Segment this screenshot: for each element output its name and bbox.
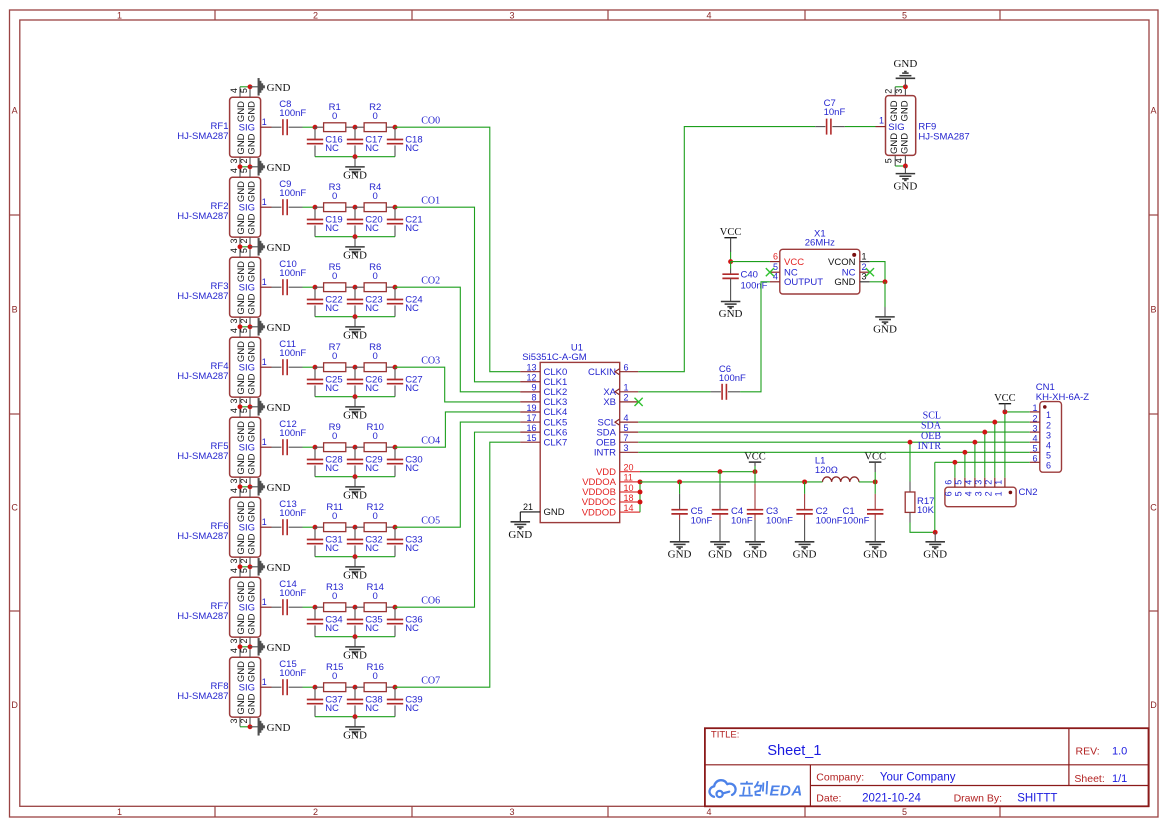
svg-text:2021-10-24: 2021-10-24 [862, 793, 921, 805]
svg-text:3: 3 [509, 10, 514, 20]
wire shunt rail RF8 [315, 716, 395, 718]
svg-text:C: C [1150, 503, 1157, 513]
svg-text:6: 6 [944, 480, 954, 485]
svg-text:GND: GND [247, 341, 258, 362]
svg-text:120Ω: 120Ω [815, 465, 838, 476]
svg-text:GND: GND [343, 570, 367, 582]
svg-text:9: 9 [531, 383, 536, 393]
wire RF6 pin1 to C13 [272, 526, 282, 528]
U1 pin 3 INTR [620, 451, 639, 453]
capacitor C18 NC [394, 127, 396, 139]
svg-text:GND: GND [267, 162, 291, 174]
svg-text:HJ-SMA287: HJ-SMA287 [177, 211, 228, 222]
capacitor C28 NC [314, 447, 316, 459]
svg-text:VCC: VCC [864, 452, 886, 463]
wire net SCL [638, 421, 1030, 423]
no-connect X1 pin 2 [866, 268, 874, 276]
resistor R14 0 [355, 606, 364, 608]
svg-text:HJ-SMA287: HJ-SMA287 [177, 451, 228, 462]
svg-text:10: 10 [624, 483, 634, 493]
capacitor C35 NC [354, 607, 356, 619]
svg-text:HJ-SMA287: HJ-SMA287 [918, 131, 969, 142]
svg-text:HJ-SMA287: HJ-SMA287 [177, 371, 228, 382]
junction CN2 drop 1 [1002, 409, 1007, 414]
svg-text:NC: NC [365, 143, 379, 154]
U1 pin 20 VDD [620, 471, 641, 473]
resistor R6 0 [355, 286, 364, 288]
svg-text:5: 5 [239, 88, 249, 93]
junction node CO6 a [313, 605, 318, 610]
svg-text:2: 2 [983, 480, 993, 485]
junction node CO5 a [313, 525, 318, 530]
ground below RF4 network [354, 397, 356, 407]
connector RF5 HJ-SMA287 [230, 417, 261, 477]
svg-text:D: D [1150, 700, 1157, 710]
connector RF3 HJ-SMA287 [230, 257, 261, 317]
IC U1 Si5351C-A-GM body [540, 362, 620, 522]
svg-text:INTR: INTR [594, 448, 616, 459]
svg-text:0: 0 [332, 511, 337, 522]
svg-text:VCC: VCC [784, 257, 804, 268]
U1 pin 4 SCL [620, 421, 639, 423]
svg-text:GND: GND [236, 213, 247, 234]
capacitor C10 100nF [282, 279, 284, 295]
frame row ticks [10, 214, 20, 216]
svg-text:GND: GND [236, 341, 247, 362]
resistor R8 0 [355, 366, 364, 368]
capacitor C24 NC [394, 287, 396, 299]
junction node CO3 c [393, 365, 398, 370]
U1 pin 19 CLK4 [520, 411, 540, 413]
resistor R15 0 [315, 686, 324, 688]
wire shunt rail RF5 [315, 476, 395, 478]
U1 pin 15 CLK7 [520, 441, 540, 443]
wire CN1 CN2 pin6 ground net [935, 461, 1030, 463]
junction rail RF6 [353, 554, 358, 559]
svg-text:NC: NC [325, 623, 339, 634]
svg-text:10nF: 10nF [691, 516, 713, 527]
wire C9 to node [303, 206, 316, 208]
CN2 pin 4 [974, 478, 976, 488]
svg-text:HJ-SMA287: HJ-SMA287 [177, 291, 228, 302]
svg-text:100nF: 100nF [279, 268, 306, 279]
ground below RF8 network [354, 717, 356, 727]
svg-text:2: 2 [239, 558, 249, 563]
connector CN1 KH-XH-6A-Z body [1040, 402, 1062, 473]
wire C10 to node [303, 286, 316, 288]
X1 pin 1 VCON [860, 261, 870, 263]
wire net OEB [638, 441, 1030, 443]
svg-text:GND: GND [236, 181, 247, 202]
wire OEB to R17 [909, 442, 911, 481]
U1 pin 1 XA [620, 391, 639, 393]
svg-text:GND: GND [236, 261, 247, 282]
svg-text:GND: GND [247, 533, 258, 554]
svg-text:0: 0 [332, 271, 337, 282]
svg-text:6: 6 [624, 363, 629, 373]
svg-text:GND: GND [247, 293, 258, 314]
junction OEB R17 [908, 440, 913, 445]
svg-text:GND: GND [267, 242, 291, 254]
svg-text:3: 3 [229, 638, 239, 643]
svg-text:NC: NC [325, 143, 339, 154]
svg-text:5: 5 [1046, 451, 1051, 461]
svg-text:1.0: 1.0 [1112, 745, 1127, 757]
svg-text:100nF: 100nF [279, 348, 306, 359]
svg-text:HJ-SMA287: HJ-SMA287 [177, 531, 228, 542]
CN1 pin 5 [1030, 451, 1040, 453]
svg-text:2: 2 [1032, 413, 1037, 423]
svg-text:CO6: CO6 [421, 595, 440, 606]
svg-text:2: 2 [239, 638, 249, 643]
svg-text:3: 3 [229, 318, 239, 323]
svg-text:GND: GND [267, 722, 291, 734]
connector RF1 HJ-SMA287 [230, 97, 261, 157]
svg-text:GND: GND [247, 421, 258, 442]
junction ground node right [933, 530, 938, 535]
wire drop to CN2 pin 6 [954, 462, 956, 477]
junction node CO6 b [353, 605, 358, 610]
svg-text:Si5351C-A-GM: Si5351C-A-GM [522, 352, 586, 363]
svg-text:B: B [12, 305, 18, 315]
svg-text:4: 4 [894, 158, 904, 163]
svg-text:0: 0 [332, 351, 337, 362]
svg-text:GND: GND [247, 213, 258, 234]
svg-text:4: 4 [706, 807, 711, 817]
title block row line 1 [705, 764, 1149, 766]
capacitor C38 NC [354, 687, 356, 699]
ground below C3 [745, 541, 765, 543]
svg-text:5: 5 [902, 10, 907, 20]
RF9 top pins 2 3 [894, 87, 896, 96]
CN1 pin 1 [1030, 411, 1040, 413]
svg-text:GND: GND [247, 661, 258, 682]
ground below RF9 [904, 166, 906, 173]
wire RF7 pin1 to C14 [272, 606, 282, 608]
CN2 pin 3 [984, 478, 986, 488]
U1 pin 10 VDDOB [620, 491, 641, 493]
junction VDDOB [638, 490, 643, 495]
svg-text:GND: GND [247, 501, 258, 522]
oscillator X1 26MHz body [780, 249, 860, 294]
svg-text:SIG: SIG [239, 363, 255, 374]
svg-text:NC: NC [325, 703, 339, 714]
wire shunt rail RF3 [315, 316, 395, 318]
capacitor C31 NC [314, 527, 316, 539]
wire L1 to VCC node [859, 481, 875, 483]
svg-text:GND: GND [236, 661, 247, 682]
no-connect XB [635, 398, 643, 406]
svg-text:CO7: CO7 [421, 675, 440, 686]
svg-text:NC: NC [405, 223, 419, 234]
ground above RF9 [904, 78, 906, 86]
CN1 pin 3 [1030, 431, 1040, 433]
CN1 pin 6 [1030, 461, 1040, 463]
svg-text:OUTPUT: OUTPUT [784, 277, 823, 288]
wire net CO3 [395, 367, 520, 402]
svg-text:0: 0 [373, 591, 378, 602]
svg-text:NC: NC [365, 623, 379, 634]
svg-text:21: 21 [523, 502, 533, 512]
wire net CO2 [395, 287, 520, 392]
svg-text:SIG: SIG [888, 122, 904, 133]
svg-text:GND: GND [267, 322, 291, 334]
junction node CO5 b [353, 525, 358, 530]
svg-text:GND: GND [236, 613, 247, 634]
wire C13 to node [303, 526, 316, 528]
svg-text:NC: NC [405, 303, 419, 314]
capacitor C1 100nF [874, 482, 876, 494]
ground below RF2 network [354, 237, 356, 247]
junction node CO3 a [313, 365, 318, 370]
ground flag at RF connector row 4 [240, 326, 250, 328]
svg-text:SIG: SIG [239, 203, 255, 214]
junction rail RF2 [353, 234, 358, 239]
svg-text:NC: NC [365, 383, 379, 394]
svg-text:SIG: SIG [239, 123, 255, 134]
wire C11 to node [303, 366, 316, 368]
svg-text:Sheet:: Sheet: [1074, 773, 1104, 785]
svg-text:5: 5 [954, 480, 964, 485]
CN2 pin 2 [994, 478, 996, 488]
wire net CO6 [395, 432, 520, 607]
ground below C40 [721, 301, 741, 303]
svg-text:INTR: INTR [918, 441, 942, 452]
ground below X1 [875, 316, 895, 318]
resistor R4 0 [355, 206, 364, 208]
capacitor C39 NC [394, 687, 396, 699]
resistor R5 0 [315, 286, 324, 288]
CN1 pin 4 [1030, 441, 1040, 443]
ground below RF5 network [354, 477, 356, 487]
svg-text:GND: GND [267, 642, 291, 654]
svg-text:4: 4 [229, 168, 239, 173]
X1 pin 3 GND [860, 281, 870, 283]
svg-text:GND: GND [247, 373, 258, 394]
svg-text:1: 1 [262, 357, 267, 367]
svg-text:GND: GND [708, 548, 732, 560]
svg-text:6: 6 [1046, 461, 1051, 471]
capacitor C5 10nF [679, 482, 681, 494]
wire XA net with C6 [638, 391, 710, 393]
RF9 pin 1 stub [876, 126, 886, 128]
svg-text:GND: GND [236, 101, 247, 122]
CN1 pin 2 [1030, 421, 1040, 423]
svg-text:5: 5 [1032, 444, 1037, 454]
ground flag at RF connector row 9 [240, 726, 250, 728]
junction VDDO C2 [802, 479, 807, 484]
junction node CO0 c [393, 125, 398, 130]
junction node CO0 b [353, 125, 358, 130]
wire C6 to X1 OUTPUT [740, 282, 770, 392]
svg-text:1: 1 [262, 277, 267, 287]
svg-text:3: 3 [229, 158, 239, 163]
capacitor C3 100nF [754, 472, 756, 484]
wire net CO5 [395, 422, 520, 527]
junction node CO7 a [313, 685, 318, 690]
wire shunt rail RF1 [315, 156, 395, 158]
wire VDDO rail [640, 481, 823, 483]
svg-text:17: 17 [526, 413, 536, 423]
junction node CO4 c [393, 445, 398, 450]
svg-text:KH-XH-6A-Z: KH-XH-6A-Z [1036, 392, 1090, 403]
capacitor C15 100nF [282, 679, 284, 695]
resistor R13 0 [315, 606, 324, 608]
svg-text:GND: GND [343, 250, 367, 262]
junction node CO1 a [313, 205, 318, 210]
svg-text:GND: GND [267, 562, 291, 574]
svg-text:20: 20 [624, 463, 634, 473]
svg-text:C: C [11, 503, 18, 513]
svg-text:3: 3 [229, 238, 239, 243]
wire C14 to node [303, 606, 316, 608]
svg-text:0: 0 [373, 351, 378, 362]
svg-text:3: 3 [974, 491, 984, 496]
svg-text:100nF: 100nF [279, 588, 306, 599]
svg-text:GND: GND [236, 133, 247, 154]
svg-text:CO3: CO3 [421, 355, 440, 366]
connector RF8 HJ-SMA287 [230, 657, 261, 717]
svg-text:GND: GND [247, 693, 258, 714]
capacitor C12 100nF [282, 439, 284, 455]
resistor R10 0 [355, 446, 364, 448]
wire VDD net [640, 471, 755, 473]
svg-text:1: 1 [117, 807, 122, 817]
capacitor C26 NC [354, 367, 356, 379]
svg-text:7: 7 [624, 433, 629, 443]
svg-text:GND: GND [793, 548, 817, 560]
svg-text:Date:: Date: [816, 793, 841, 805]
svg-text:0: 0 [373, 191, 378, 202]
svg-text:VCC: VCC [720, 227, 742, 238]
svg-text:NC: NC [405, 143, 419, 154]
svg-text:2: 2 [313, 10, 318, 20]
svg-text:0: 0 [373, 511, 378, 522]
capacitor C34 NC [314, 607, 316, 619]
svg-text:4: 4 [229, 648, 239, 653]
svg-text:6: 6 [1032, 454, 1037, 464]
svg-text:1: 1 [262, 117, 267, 127]
svg-text:1: 1 [862, 251, 867, 261]
svg-text:Your Company: Your Company [880, 772, 956, 784]
svg-text:11: 11 [624, 473, 633, 483]
svg-text:CLK7: CLK7 [544, 437, 568, 448]
svg-text:GND: GND [247, 101, 258, 122]
capacitor C25 NC [314, 367, 316, 379]
svg-text:Sheet_1: Sheet_1 [767, 743, 821, 759]
U1 pin 2 XB [620, 401, 639, 403]
svg-text:4: 4 [229, 248, 239, 253]
svg-text:GND: GND [668, 548, 692, 560]
ground below RF3 network [354, 317, 356, 327]
no-connect X1 pin 5 [766, 268, 774, 276]
U1 pin 5 SDA [620, 431, 639, 433]
wire drop to CN2 pin 1 [1004, 412, 1006, 478]
capacitor C17 NC [354, 127, 356, 139]
ground below C4 [710, 541, 730, 543]
svg-text:GND: GND [893, 181, 917, 193]
svg-text:100nF: 100nF [279, 668, 306, 679]
svg-text:TITLE:: TITLE: [711, 730, 740, 741]
svg-text:NC: NC [365, 703, 379, 714]
svg-text:3: 3 [229, 718, 239, 723]
connector CN2 body [945, 487, 1016, 507]
svg-text:19: 19 [526, 403, 536, 413]
svg-text:3: 3 [229, 558, 239, 563]
svg-text:GND: GND [236, 693, 247, 714]
junction node CO7 c [393, 685, 398, 690]
capacitor C21 NC [394, 207, 396, 219]
inductor L1 120R [823, 477, 859, 482]
capacitor C6 100nF [721, 384, 723, 400]
svg-text:GND: GND [893, 58, 917, 70]
svg-text:16: 16 [526, 423, 536, 433]
svg-text:GND: GND [343, 730, 367, 742]
svg-text:GND: GND [236, 501, 247, 522]
wire RF9 top ground [895, 86, 905, 88]
capacitor C9 100nF [282, 199, 284, 215]
svg-text:0: 0 [332, 591, 337, 602]
svg-text:GND: GND [247, 453, 258, 474]
capacitor C19 NC [314, 207, 316, 219]
junction rail RF3 [353, 314, 358, 319]
svg-text:VCC: VCC [994, 393, 1016, 404]
svg-text:5: 5 [902, 807, 907, 817]
svg-text:1: 1 [879, 116, 884, 126]
wire RF3 pin1 to C10 [272, 286, 282, 288]
svg-text:2: 2 [239, 318, 249, 323]
junction node CO7 b [353, 685, 358, 690]
svg-text:8: 8 [531, 393, 536, 403]
junction node CO4 b [353, 445, 358, 450]
svg-text:GND: GND [343, 170, 367, 182]
X1 pin 6 VCC [770, 261, 780, 263]
wire shunt rail RF7 [315, 636, 395, 638]
svg-text:2: 2 [984, 491, 994, 496]
title block rev column divider [1068, 728, 1070, 785]
resistor R17 10K [905, 492, 915, 512]
svg-text:HJ-SMA287: HJ-SMA287 [177, 691, 228, 702]
svg-text:2: 2 [239, 718, 249, 723]
svg-text:3: 3 [1032, 423, 1037, 433]
junction rail RF7 [353, 634, 358, 639]
svg-text:GND: GND [900, 133, 911, 154]
svg-text:REV:: REV: [1076, 745, 1100, 757]
wire net CO1 [395, 207, 520, 382]
resistor R7 0 [315, 366, 324, 368]
svg-text:1/1: 1/1 [1112, 773, 1127, 785]
svg-text:2: 2 [862, 262, 867, 272]
svg-text:1: 1 [1032, 403, 1037, 413]
EasyEDA logo cloud [709, 780, 735, 797]
svg-text:VDDOD: VDDOD [582, 507, 616, 518]
junction CN2 drop 3 [982, 430, 987, 435]
svg-text:Drawn By:: Drawn By: [954, 793, 1002, 805]
junction node CO1 b [353, 205, 358, 210]
CN2 pin 6 [954, 478, 956, 488]
wire drop to CN2 pin 3 [984, 432, 986, 478]
ground below RF6 network [354, 557, 356, 567]
svg-text:4: 4 [1046, 440, 1051, 450]
wire net CO0 [395, 127, 520, 372]
ground at U1 pin 21 [519, 512, 521, 522]
junction node CO3 b [353, 365, 358, 370]
wire shunt rail RF4 [315, 396, 395, 398]
svg-text:2: 2 [1046, 420, 1051, 430]
svg-text:NC: NC [365, 463, 379, 474]
svg-text:GND: GND [923, 548, 947, 560]
ground flag at RF connector row 8 [240, 646, 250, 648]
